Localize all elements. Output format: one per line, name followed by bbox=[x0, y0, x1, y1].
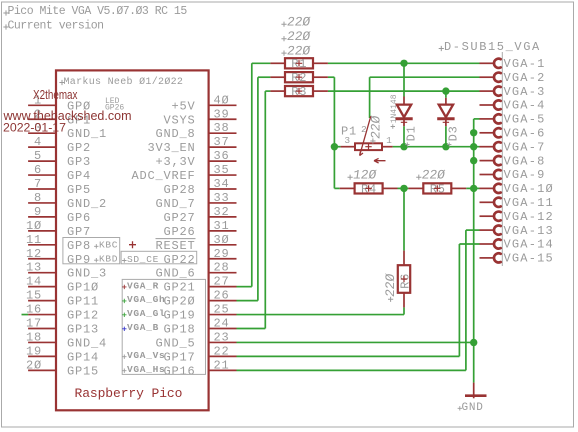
svg-text:VGA-1: VGA-1 bbox=[504, 57, 546, 71]
svg-text:VSYS: VSYS bbox=[163, 113, 195, 127]
pin 33 lead bbox=[209, 202, 237, 204]
svg-text:GP22: GP22 bbox=[163, 253, 195, 267]
svg-text:34: 34 bbox=[214, 177, 230, 191]
svg-text:GP5: GP5 bbox=[67, 183, 91, 197]
SD_CE origin cross bbox=[122, 258, 126, 262]
svg-text:22Ø: 22Ø bbox=[383, 273, 398, 298]
wire GP21 to riser bbox=[237, 286, 252, 288]
svg-text:24: 24 bbox=[214, 317, 230, 331]
frame around SD_CE bbox=[121, 251, 197, 263]
svg-text:+3,3V: +3,3V bbox=[155, 155, 195, 169]
svg-text:12: 12 bbox=[26, 247, 42, 261]
connector name origin cross bbox=[439, 46, 444, 51]
diode D1 name origin cross bbox=[405, 142, 409, 146]
svg-text:14: 14 bbox=[26, 275, 42, 289]
value 220 of R5 bbox=[421, 168, 446, 183]
value origin cross R3 bbox=[281, 51, 286, 56]
diode D3 triangle bbox=[439, 105, 453, 118]
svg-text:9: 9 bbox=[34, 205, 42, 219]
junction node B R4-R5-R6 bbox=[400, 185, 407, 192]
pin 18 lead bbox=[28, 341, 56, 343]
wire wiper riser bbox=[369, 77, 371, 118]
svg-text:GND_5: GND_5 bbox=[155, 336, 195, 350]
value origin cross R5 bbox=[416, 175, 421, 180]
trimmer P1 value origin cross bbox=[370, 138, 375, 143]
svg-text:GP7: GP7 bbox=[67, 225, 91, 239]
connector pin VGA-1 contact arc bbox=[494, 59, 501, 68]
wire GP18 to riser bbox=[237, 328, 266, 330]
svg-text:GP16: GP16 bbox=[163, 364, 195, 378]
connector pin VGA-10 lead bbox=[480, 187, 494, 189]
svg-text:VGA-9: VGA-9 bbox=[504, 168, 546, 182]
svg-text:GND_4: GND_4 bbox=[67, 336, 107, 350]
value 220 of R2 bbox=[286, 29, 311, 44]
resistor R5 body bbox=[423, 183, 451, 193]
pin 30 lead bbox=[209, 244, 237, 246]
svg-text:GP2Ø: GP2Ø bbox=[163, 295, 195, 309]
wire riser VGA_B bbox=[264, 91, 266, 328]
svg-text:32: 32 bbox=[214, 205, 230, 219]
connector pin VGA-1 lead bbox=[480, 62, 494, 64]
svg-text:+5V: +5V bbox=[171, 99, 195, 113]
connector pin VGA-4 lead bbox=[480, 104, 494, 106]
svg-text:GP27: GP27 bbox=[163, 211, 195, 225]
svg-text:37: 37 bbox=[214, 135, 230, 149]
diode D3 origin cross bbox=[443, 119, 449, 125]
junction node gnd VGA-6 bbox=[470, 129, 477, 136]
svg-text:22Ø: 22Ø bbox=[421, 168, 446, 183]
svg-text:VGA_Gl: VGA_Gl bbox=[127, 308, 165, 319]
wire GND_5 to GND node bbox=[237, 341, 474, 343]
resistor R5 origin cross bbox=[434, 185, 440, 191]
value 220 of R3 bbox=[286, 43, 311, 58]
frame around VGA signal labels bbox=[122, 279, 205, 374]
resistor R6 value origin cross bbox=[388, 297, 393, 302]
svg-text:22Ø: 22Ø bbox=[286, 14, 311, 29]
resistor R2 body bbox=[285, 72, 313, 82]
junction node gnd VGA-7 bbox=[470, 143, 477, 150]
gnd supply bar bbox=[465, 394, 487, 397]
connector pin VGA-12 contact arc bbox=[494, 212, 501, 221]
frame around KBC KBD bbox=[63, 238, 120, 264]
pin 13 lead bbox=[28, 272, 56, 274]
connector X1 body line bbox=[501, 52, 503, 266]
diode D1 triangle bbox=[397, 105, 411, 118]
diode D1 value 1N4148 bbox=[390, 94, 399, 123]
svg-text:GP11: GP11 bbox=[67, 295, 99, 309]
connector pin VGA-5 contact arc bbox=[494, 114, 501, 123]
pin 38 lead bbox=[209, 132, 237, 134]
svg-text:31: 31 bbox=[214, 219, 230, 233]
wire GND column bbox=[473, 119, 475, 383]
svg-text:3V3_EN: 3V3_EN bbox=[147, 141, 195, 155]
wire D1 anode drop bbox=[403, 63, 405, 96]
svg-text:2022-01-17: 2022-01-17 bbox=[3, 123, 66, 135]
svg-text:GND_8: GND_8 bbox=[155, 127, 195, 141]
wire D3 anode drop bbox=[445, 91, 447, 98]
pin 14 lead bbox=[28, 286, 56, 288]
svg-text:VGA-2: VGA-2 bbox=[504, 71, 546, 85]
resistor R6 name bbox=[399, 273, 413, 289]
svg-text:4Ø: 4Ø bbox=[214, 93, 230, 107]
KBC origin cross bbox=[94, 244, 98, 248]
wire node A to R4 bbox=[334, 187, 339, 189]
svg-text:VGA-8: VGA-8 bbox=[504, 154, 546, 168]
wire riser top to R1 bbox=[252, 62, 271, 64]
connector pin VGA-11 contact arc bbox=[494, 198, 501, 207]
pin 15 lead bbox=[28, 300, 56, 302]
junction node gnd VGA-10 bbox=[470, 185, 477, 192]
junction node D1-R1-VGA1 bbox=[400, 60, 407, 67]
wire node A to P1 pin 3 bbox=[334, 146, 340, 148]
connector pin VGA-12 lead bbox=[480, 215, 494, 217]
value 220 of R1 bbox=[286, 14, 311, 29]
junction node D3 cathode bbox=[442, 143, 449, 150]
wire R2 to node A riser bbox=[328, 76, 335, 78]
svg-text:11: 11 bbox=[26, 233, 42, 247]
trimmer P1 wiper diagonal bbox=[360, 116, 371, 155]
pin 23 lead bbox=[209, 341, 237, 343]
resistor R4 leads bbox=[340, 187, 355, 189]
svg-text:33: 33 bbox=[214, 191, 230, 205]
pin 35 lead bbox=[209, 174, 237, 176]
junction node A P1 pin3 bbox=[331, 143, 338, 150]
svg-text:GP9: GP9 bbox=[67, 253, 91, 267]
title origin cross bbox=[3, 10, 8, 15]
svg-text:GP14: GP14 bbox=[67, 350, 99, 364]
svg-text:VGA_R: VGA_R bbox=[127, 280, 159, 291]
pin 7 lead bbox=[28, 188, 56, 190]
svg-text:21: 21 bbox=[214, 358, 230, 372]
VGA_Vs origin cross bbox=[122, 355, 126, 359]
svg-text:ADC_VREF: ADC_VREF bbox=[131, 169, 195, 183]
svg-text:36: 36 bbox=[214, 149, 230, 163]
connector pin VGA-15 contact arc bbox=[494, 253, 501, 262]
wire GP17 to riser bbox=[237, 355, 460, 357]
trimmer P1 origin cross bbox=[365, 144, 371, 150]
diode D3 name origin cross bbox=[447, 142, 451, 146]
svg-text:2: 2 bbox=[361, 124, 367, 135]
resistor R6 origin cross bbox=[401, 276, 407, 282]
svg-text:VGA-14: VGA-14 bbox=[504, 238, 554, 252]
connector pin VGA-10 contact arc bbox=[494, 184, 501, 193]
resistor R6 leads bbox=[403, 251, 405, 265]
resistor R6 body bbox=[398, 265, 410, 293]
connector pin VGA-6 contact arc bbox=[494, 128, 501, 137]
VGA_Gl origin cross bbox=[122, 313, 126, 317]
diode D1 name bbox=[405, 125, 419, 141]
svg-text:GP26: GP26 bbox=[163, 225, 195, 239]
junction node D3-R3-VGA3 bbox=[442, 87, 449, 94]
svg-text:D3: D3 bbox=[447, 125, 461, 141]
svg-text:GP12: GP12 bbox=[67, 309, 99, 323]
connector pin VGA-7 lead bbox=[480, 146, 494, 148]
svg-text:Pico Mite VGA V5.Ø7.Ø3 RC 15: Pico Mite VGA V5.Ø7.Ø3 RC 15 bbox=[8, 5, 188, 18]
diode D1 anode lead bbox=[403, 97, 405, 105]
pin 36 lead bbox=[209, 160, 237, 162]
pin 34 lead bbox=[209, 188, 237, 190]
svg-text:38: 38 bbox=[214, 121, 230, 135]
svg-text:VGA_Gh: VGA_Gh bbox=[127, 294, 165, 305]
junction node gnd VGA-8 bbox=[470, 157, 477, 164]
pin 19 lead bbox=[28, 355, 56, 357]
connector pin VGA-14 lead bbox=[480, 243, 494, 245]
value 120 of R4 bbox=[352, 168, 377, 183]
svg-text:12Ø: 12Ø bbox=[352, 168, 377, 183]
wire riser VGA_Gh bbox=[257, 77, 259, 300]
svg-text:35: 35 bbox=[214, 163, 230, 177]
resistor R3 body bbox=[285, 86, 313, 96]
svg-text:GND_7: GND_7 bbox=[155, 197, 195, 211]
wire VGA-5 lead-in bbox=[474, 118, 480, 120]
svg-text:VGA-15: VGA-15 bbox=[504, 252, 554, 266]
pin 9 lead bbox=[28, 216, 56, 218]
svg-text:29: 29 bbox=[214, 247, 230, 261]
svg-text:18: 18 bbox=[26, 330, 42, 344]
diode D3 cathode lead bbox=[445, 119, 447, 127]
svg-text:1Ø: 1Ø bbox=[26, 219, 42, 233]
diode D3 cathode wire bbox=[445, 126, 447, 146]
svg-text:26: 26 bbox=[214, 289, 230, 303]
wire riser VGA-13 bbox=[465, 230, 467, 370]
pin 32 lead bbox=[209, 216, 237, 218]
stub wire at GP12 pin 16 bbox=[22, 314, 29, 316]
wire riser top to R2 bbox=[258, 76, 271, 78]
IC U1 Raspberry Pico body bbox=[56, 70, 209, 410]
wire node A riser bbox=[333, 77, 335, 188]
connector pin VGA-6 lead bbox=[480, 132, 494, 134]
pin 16 lead bbox=[28, 314, 56, 316]
pin 8 lead bbox=[28, 202, 56, 204]
svg-text:6: 6 bbox=[34, 163, 42, 177]
junction node gnd GND_5 bbox=[470, 339, 477, 346]
pin 20 lead bbox=[28, 369, 56, 371]
pin 24 lead bbox=[209, 328, 237, 330]
VGA_R origin cross bbox=[122, 285, 126, 289]
svg-text:GP18: GP18 bbox=[163, 323, 195, 337]
svg-text:VGA-3: VGA-3 bbox=[504, 85, 546, 99]
svg-text:39: 39 bbox=[214, 107, 230, 121]
diode D1 cathode wire bbox=[403, 126, 405, 146]
gnd label origin cross bbox=[458, 406, 462, 410]
svg-text:23: 23 bbox=[214, 330, 230, 344]
svg-text:28: 28 bbox=[214, 261, 230, 275]
svg-text:22: 22 bbox=[214, 344, 230, 358]
wire GP16 to riser bbox=[237, 369, 466, 371]
wire R4 R5 node row bbox=[398, 187, 409, 189]
svg-text:GP21: GP21 bbox=[163, 281, 195, 295]
diode D1 cathode lead bbox=[403, 119, 405, 127]
value origin cross R4 bbox=[348, 175, 353, 180]
svg-text:KBD: KBD bbox=[99, 254, 118, 265]
svg-text:3Ø: 3Ø bbox=[214, 233, 230, 247]
wire P1 pin 1 to ground row bbox=[393, 146, 480, 148]
connector pin VGA-15 lead bbox=[480, 257, 494, 259]
pin 39 lead bbox=[209, 118, 237, 120]
KBD origin cross bbox=[94, 258, 98, 262]
svg-text:GND: GND bbox=[462, 402, 484, 414]
diode D3 name bbox=[447, 125, 461, 141]
diode D1 cathode bar bbox=[395, 117, 412, 120]
pin 12 lead bbox=[28, 258, 56, 260]
connector pin VGA-2 contact arc bbox=[494, 73, 501, 82]
svg-text:3: 3 bbox=[344, 135, 350, 146]
svg-text:15: 15 bbox=[26, 289, 42, 303]
svg-text:VGA-4: VGA-4 bbox=[504, 99, 546, 113]
connector pin VGA-8 contact arc bbox=[494, 156, 501, 165]
svg-text:GP3: GP3 bbox=[67, 155, 91, 169]
svg-text:27: 27 bbox=[214, 275, 230, 289]
svg-text:R6: R6 bbox=[399, 273, 413, 289]
svg-text:VGA-6: VGA-6 bbox=[504, 127, 546, 141]
connector pin VGA-9 contact arc bbox=[494, 170, 501, 179]
pin 6 lead bbox=[28, 174, 56, 176]
resistor R3 origin cross bbox=[296, 88, 302, 94]
svg-text:RESET: RESET bbox=[155, 239, 195, 253]
svg-text:VGA-5: VGA-5 bbox=[504, 113, 546, 127]
svg-text:1N4148: 1N4148 bbox=[390, 94, 399, 123]
svg-text:16: 16 bbox=[26, 303, 42, 317]
svg-text:GND_6: GND_6 bbox=[155, 267, 195, 281]
svg-text:8: 8 bbox=[34, 191, 42, 205]
svg-text:GP17: GP17 bbox=[163, 350, 195, 364]
VGA_Gh origin cross bbox=[122, 299, 126, 303]
pin 26 lead bbox=[209, 300, 237, 302]
svg-text:GP28: GP28 bbox=[163, 183, 195, 197]
trimmer P1 body bbox=[355, 143, 382, 150]
diode D3 anode lead bbox=[445, 98, 447, 105]
svg-text:VGA-13: VGA-13 bbox=[504, 224, 554, 238]
resistor R4 body bbox=[355, 183, 383, 193]
svg-text:Current version: Current version bbox=[8, 19, 104, 32]
resistor R3 leads bbox=[270, 90, 284, 92]
pin 29 lead bbox=[209, 258, 237, 260]
pin 17 lead bbox=[28, 328, 56, 330]
connector pin VGA-8 lead bbox=[480, 160, 494, 162]
subtitle origin cross bbox=[3, 24, 8, 29]
svg-text:2Ø: 2Ø bbox=[26, 358, 42, 372]
svg-text:VGA-11: VGA-11 bbox=[504, 196, 554, 210]
connector pin VGA-7 contact arc bbox=[494, 142, 501, 151]
svg-text:Raspberry Pico: Raspberry Pico bbox=[75, 386, 183, 401]
trimmer P1 adjust arrow bbox=[374, 158, 386, 163]
svg-text:GP6: GP6 bbox=[67, 211, 91, 225]
pin 10 lead bbox=[28, 230, 56, 232]
svg-text:19: 19 bbox=[26, 344, 42, 358]
svg-text:GND_1: GND_1 bbox=[67, 127, 107, 141]
wire VGA-13 lead-in bbox=[466, 229, 480, 231]
svg-text:GP13: GP13 bbox=[67, 323, 99, 337]
resistor R1 body bbox=[285, 58, 313, 68]
svg-text:VGA_Vs: VGA_Vs bbox=[127, 350, 165, 361]
pin 4 lead bbox=[28, 146, 56, 148]
gnd supply stub bbox=[473, 383, 475, 399]
svg-text:GP4: GP4 bbox=[67, 169, 91, 183]
resistor R2 origin cross bbox=[296, 74, 302, 80]
connector pin VGA-5 lead bbox=[480, 118, 494, 120]
RESET overbar bbox=[156, 238, 196, 240]
connector pin VGA-13 lead bbox=[480, 229, 494, 231]
pin 11 lead bbox=[28, 244, 56, 246]
pin 1 lead bbox=[28, 104, 56, 106]
wire riser VGA_R bbox=[251, 63, 253, 286]
pin 21 lead bbox=[209, 369, 237, 371]
svg-text:VGA-7: VGA-7 bbox=[504, 140, 546, 154]
diode D3 cathode bar bbox=[437, 117, 454, 120]
wire R6 bottom riser bbox=[403, 307, 405, 314]
resistor R5 leads bbox=[408, 187, 423, 189]
svg-text:D1: D1 bbox=[405, 125, 419, 141]
svg-text:22Ø: 22Ø bbox=[368, 115, 383, 140]
wire R3 to VGA-3 bbox=[328, 90, 480, 92]
pin 40 lead bbox=[209, 104, 237, 106]
resistor R2 leads bbox=[270, 76, 284, 78]
svg-text:22Ø: 22Ø bbox=[286, 29, 311, 44]
svg-text:www.thebackshed.com: www.thebackshed.com bbox=[3, 108, 132, 123]
pin 5 lead bbox=[28, 160, 56, 162]
svg-text:GND_2: GND_2 bbox=[67, 197, 107, 211]
svg-text:5: 5 bbox=[34, 149, 42, 163]
svg-text:1: 1 bbox=[386, 135, 392, 146]
pin 37 lead bbox=[209, 146, 237, 148]
wire GP20 to riser bbox=[237, 300, 258, 302]
VGA_B origin cross bbox=[122, 327, 126, 331]
svg-text:GND_3: GND_3 bbox=[67, 267, 107, 281]
svg-text:SD_CE: SD_CE bbox=[127, 254, 159, 265]
diode D1 value origin cross bbox=[391, 124, 395, 128]
pin 31 lead bbox=[209, 230, 237, 232]
junction node D1 cathode bbox=[400, 143, 407, 150]
pin 25 lead bbox=[209, 314, 237, 316]
svg-text:GP19: GP19 bbox=[163, 309, 195, 323]
value origin cross R2 bbox=[281, 36, 286, 41]
pin 28 lead bbox=[209, 272, 237, 274]
svg-text:GP15: GP15 bbox=[67, 364, 99, 378]
resistor R4 origin cross bbox=[365, 185, 371, 191]
connector pin VGA-3 lead bbox=[480, 90, 494, 92]
trimmer P1 value 220 bbox=[368, 115, 383, 140]
connector pin VGA-3 contact arc bbox=[494, 86, 501, 95]
pin 22 lead bbox=[209, 355, 237, 357]
wire R1 to VGA-1 bbox=[328, 62, 480, 64]
wire wiper corner to VGA-2 bbox=[370, 76, 480, 78]
pin 2 lead bbox=[28, 118, 56, 120]
VGA_Hs origin cross bbox=[122, 368, 126, 372]
svg-text:X2themax: X2themax bbox=[33, 88, 78, 102]
diode D1 origin cross bbox=[401, 119, 407, 125]
connector pin VGA-4 contact arc bbox=[494, 100, 501, 109]
svg-text:7: 7 bbox=[34, 177, 42, 191]
svg-text:13: 13 bbox=[26, 261, 42, 275]
connector pin VGA-11 lead bbox=[480, 201, 494, 203]
wire R6 top riser bbox=[403, 188, 405, 250]
svg-text:VGA-1Ø: VGA-1Ø bbox=[504, 182, 554, 196]
connector pin VGA-2 lead bbox=[480, 76, 494, 78]
svg-text:GP8: GP8 bbox=[67, 239, 91, 253]
svg-text:GP1Ø: GP1Ø bbox=[67, 281, 99, 295]
svg-text:GP2: GP2 bbox=[67, 141, 91, 155]
svg-text:KBC: KBC bbox=[99, 240, 118, 251]
svg-text:VGA-12: VGA-12 bbox=[504, 210, 554, 224]
trimmer P1 leads bbox=[341, 146, 354, 148]
svg-text:17: 17 bbox=[26, 317, 42, 331]
connector pin VGA-14 contact arc bbox=[494, 239, 501, 248]
svg-text:4: 4 bbox=[34, 135, 42, 149]
svg-text:22Ø: 22Ø bbox=[286, 43, 311, 58]
value origin cross R1 bbox=[281, 22, 286, 27]
svg-text:Markus Neeb Ø1/2Ø22: Markus Neeb Ø1/2Ø22 bbox=[64, 76, 184, 88]
wire R5 to VGA-10 bbox=[466, 187, 479, 189]
